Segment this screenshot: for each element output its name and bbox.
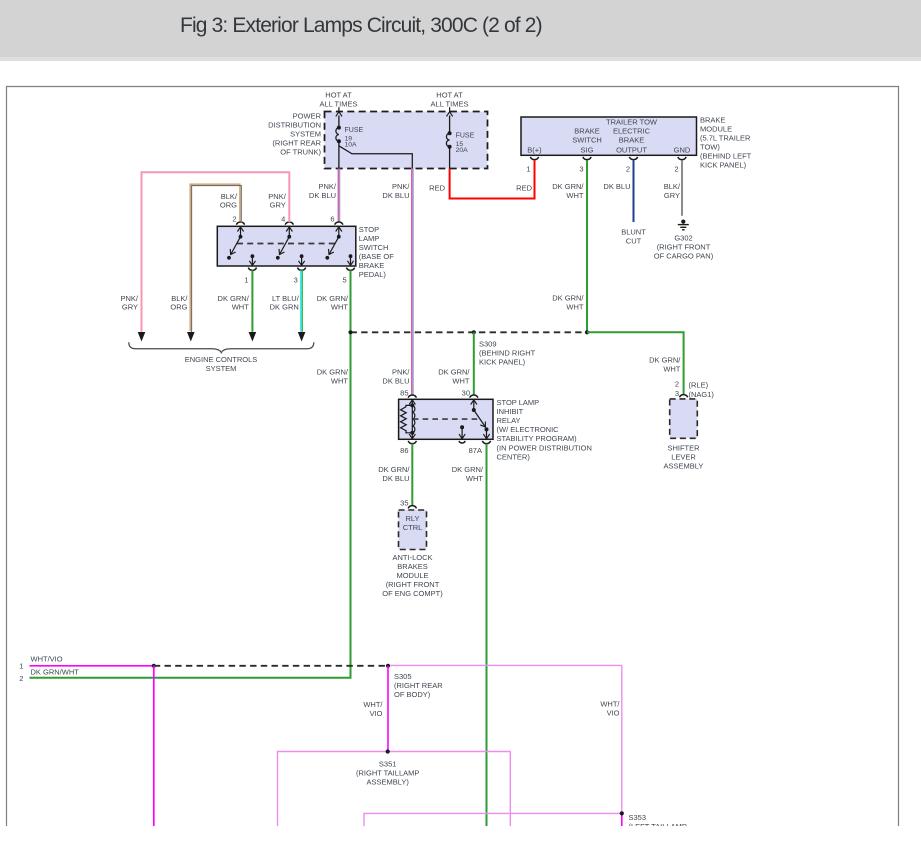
svg-text:DK BLU: DK BLU: [603, 182, 630, 191]
svg-text:86: 86: [400, 446, 408, 455]
svg-text:KICK PANEL): KICK PANEL): [479, 358, 526, 367]
svg-text:KICK PANEL): KICK PANEL): [700, 161, 747, 170]
svg-text:BRAKE: BRAKE: [619, 136, 644, 145]
wire DK GRN/WHT pin1 down to engine controls: [251, 270, 253, 332]
svg-text:2: 2: [675, 379, 679, 388]
svg-text:ORG: ORG: [170, 303, 187, 312]
wire DK GRN/WHT S309 to shifter lever: [587, 332, 684, 395]
svg-text:S353: S353: [629, 813, 647, 822]
wire DK GRN/WHT relay 87A down to bottom: [486, 444, 488, 826]
svg-text:HOT AT: HOT AT: [325, 91, 352, 100]
svg-text:LT BLU/: LT BLU/: [272, 294, 300, 303]
brake module (trailer tow) box: [521, 117, 697, 155]
svg-text:BRAKES: BRAKES: [397, 562, 427, 571]
svg-text:(BEHIND LEFT: (BEHIND LEFT: [700, 152, 752, 161]
wire DK GRN/WHT S309 to relay pin 30: [473, 332, 475, 395]
svg-text:BLK/: BLK/: [171, 294, 188, 303]
svg-text:WHT/VIO: WHT/VIO: [31, 655, 63, 664]
svg-text:RED: RED: [429, 184, 445, 193]
svg-text:CENTER): CENTER): [497, 452, 531, 461]
svg-text:OF TRUNK): OF TRUNK): [280, 148, 321, 157]
svg-text:BLUNT: BLUNT: [621, 227, 646, 236]
svg-text:VIO: VIO: [607, 709, 620, 718]
wire WHT/VIO S305 to right: [390, 664, 622, 666]
svg-text:S309: S309: [479, 339, 497, 348]
svg-text:(RIGHT FRONT: (RIGHT FRONT: [386, 580, 440, 589]
svg-text:RED: RED: [516, 184, 532, 193]
wire BLK/GRY gnd to G302: [681, 160, 683, 215]
svg-text:GND: GND: [674, 146, 691, 155]
wire PNK/GRY pin4 up-left-down to engine controls: [142, 172, 290, 331]
shifter lever assembly box (dashed): [670, 399, 698, 438]
svg-text:DK GRN/: DK GRN/: [317, 294, 349, 303]
svg-text:(BEHIND RIGHT: (BEHIND RIGHT: [479, 348, 536, 357]
relay pin connectors: [408, 395, 416, 398]
svg-text:WHT/: WHT/: [600, 700, 620, 709]
svg-text:1: 1: [526, 165, 530, 174]
wire WHT/VIO from left edge: [30, 665, 154, 667]
svg-text:30: 30: [462, 388, 470, 397]
svg-text:(IN POWER DISTRIBUTION: (IN POWER DISTRIBUTION: [497, 443, 592, 452]
svg-text:PEDAL): PEDAL): [359, 270, 387, 279]
svg-text:FUSE: FUSE: [456, 132, 475, 139]
svg-text:LEVER: LEVER: [671, 452, 696, 461]
svg-text:ANTI-LOCK: ANTI-LOCK: [392, 553, 432, 562]
svg-text:2: 2: [674, 165, 678, 174]
junction S309: [472, 330, 476, 334]
wire PNK/DK BLU fuse19 to stop lamp switch pin 6: [338, 169, 339, 223]
wire DK GRN/DK BLU relay 86 to ABS module: [411, 444, 413, 506]
wire: fuse 15 output inside box: [449, 147, 451, 169]
power distribution center box (dashed, fuses): [325, 112, 488, 169]
stop lamp switch element at pin 289.3: [288, 226, 290, 236]
svg-text:WHT: WHT: [331, 376, 348, 385]
wire DK GRN/WHT pin5 down + left to connector edge: [30, 270, 351, 678]
svg-text:2: 2: [232, 214, 236, 223]
wire DK GRN/WHT brake switch sig down to S309 bus: [586, 160, 588, 332]
svg-text:HOT AT: HOT AT: [436, 91, 463, 100]
svg-text:POWER: POWER: [293, 112, 322, 121]
stop lamp switch box: [217, 226, 355, 266]
svg-text:SYSTEM: SYSTEM: [206, 364, 237, 373]
svg-text:3: 3: [579, 165, 583, 174]
svg-text:BRAKE: BRAKE: [574, 127, 599, 136]
svg-text:(W/ ELECTRONIC: (W/ ELECTRONIC: [497, 425, 560, 434]
svg-text:DK GRN/: DK GRN/: [452, 465, 484, 474]
ground G302 symbol: [681, 220, 685, 224]
wire stub hot-at to fuse 19: [338, 107, 340, 111]
svg-text:WHT: WHT: [331, 303, 348, 312]
svg-text:LAMP: LAMP: [359, 234, 379, 243]
wire DK BLU brake output to blunt cut: [633, 160, 635, 222]
svg-text:MODULE: MODULE: [396, 571, 428, 580]
svg-text:WHT: WHT: [566, 303, 583, 312]
svg-text:OF CARGO PAN): OF CARGO PAN): [654, 251, 714, 260]
svg-text:CUT: CUT: [626, 236, 642, 245]
junction at brake sig wire: [585, 330, 589, 334]
wire WHT/VIO S353 branch left: [364, 813, 622, 826]
stop lamp inhibit relay box: [399, 399, 493, 439]
wire WHT/VIO S351 branches: [278, 752, 511, 827]
svg-text:(5.7L TRAILER: (5.7L TRAILER: [700, 133, 751, 142]
junction WHT/VIO: [152, 664, 156, 668]
wire RED fuse15 to B(+): [450, 160, 535, 198]
junction S305: [386, 664, 390, 668]
svg-text:G302: G302: [674, 233, 692, 242]
wire stub hot-at to fuse 15: [449, 107, 451, 111]
svg-text:2: 2: [626, 165, 630, 174]
wire: fuse 19 output inside box: [338, 141, 340, 168]
svg-text:VIO: VIO: [370, 709, 383, 718]
svg-text:35: 35: [400, 498, 408, 507]
S305 dashed link: [154, 665, 388, 667]
wire LT BLU/DK GRN pin3 down to engine controls: [301, 270, 302, 332]
stop lamp switch internal dashed link: [237, 243, 335, 245]
svg-text:(NAG1): (NAG1): [689, 390, 715, 399]
svg-text:SYSTEM: SYSTEM: [290, 130, 321, 139]
wire PNK/DK BLU fuse19 branch to relay pin 85: [412, 169, 413, 396]
svg-text:(RIGHT REAR: (RIGHT REAR: [272, 139, 321, 148]
svg-text:3: 3: [294, 275, 298, 284]
relay pin 87 (unused): [460, 425, 464, 429]
svg-text:BRAKE: BRAKE: [700, 115, 725, 124]
svg-text:(LEFT TAILLAMP: (LEFT TAILLAMP: [629, 822, 687, 831]
svg-text:PNK/: PNK/: [392, 367, 410, 376]
svg-text:DK GRN/: DK GRN/: [649, 355, 681, 364]
svg-text:(BASE OF: (BASE OF: [359, 252, 394, 261]
svg-text:WHT: WHT: [466, 474, 483, 483]
svg-text:ASSEMBLY: ASSEMBLY: [664, 461, 704, 470]
svg-text:GRY: GRY: [270, 201, 286, 210]
svg-text:(RIGHT REAR: (RIGHT REAR: [394, 681, 443, 690]
anti-lock brakes module box (dashed) RLY CTRL: [399, 510, 427, 550]
svg-text:TOW): TOW): [700, 142, 720, 151]
svg-text:OF BODY): OF BODY): [394, 690, 431, 699]
svg-text:SWITCH: SWITCH: [359, 243, 389, 252]
svg-text:CTRL: CTRL: [403, 523, 423, 532]
svg-text:DK BLU: DK BLU: [382, 474, 409, 483]
svg-text:GRY: GRY: [122, 303, 138, 312]
svg-text:STOP LAMP: STOP LAMP: [497, 398, 540, 407]
svg-text:85: 85: [400, 388, 408, 397]
junction S353: [620, 811, 624, 815]
svg-text:1: 1: [19, 661, 23, 670]
svg-text:PNK/: PNK/: [120, 294, 138, 303]
svg-text:DK GRN/: DK GRN/: [218, 294, 250, 303]
svg-text:DK BLU: DK BLU: [309, 191, 336, 200]
svg-text:6: 6: [330, 214, 334, 223]
svg-text:BLK/: BLK/: [664, 182, 681, 191]
svg-text:RLY: RLY: [405, 514, 419, 523]
svg-text:DK BLU: DK BLU: [382, 191, 409, 200]
svg-text:FUSE: FUSE: [345, 127, 364, 134]
junction S351: [386, 749, 390, 753]
svg-text:ELECTRIC: ELECTRIC: [613, 127, 651, 136]
svg-text:DK GRN: DK GRN: [270, 303, 299, 312]
svg-text:S351: S351: [379, 759, 397, 768]
svg-text:MODULE: MODULE: [700, 124, 732, 133]
brake module pin connectors: [530, 157, 538, 160]
engine controls system arrows: [138, 332, 146, 342]
svg-text:DK GRN/: DK GRN/: [317, 367, 349, 376]
svg-text:RELAY: RELAY: [497, 416, 521, 425]
svg-text:87A: 87A: [469, 446, 482, 455]
svg-text:STABILITY PROGRAM): STABILITY PROGRAM): [497, 434, 578, 443]
svg-text:B(+): B(+): [527, 146, 542, 155]
svg-text:ASSEMBLY): ASSEMBLY): [367, 777, 410, 786]
svg-text:ORG: ORG: [220, 201, 237, 210]
svg-text:WHT/: WHT/: [363, 700, 383, 709]
relay coil (pin 85-86): [411, 399, 413, 405]
engine controls system brace: [129, 342, 314, 352]
svg-text:PNK/: PNK/: [318, 182, 336, 191]
svg-text:10A: 10A: [345, 141, 358, 148]
svg-text:TRAILER TOW: TRAILER TOW: [606, 118, 658, 127]
svg-text:INHIBIT: INHIBIT: [497, 407, 524, 416]
svg-text:DISTRIBUTION: DISTRIBUTION: [268, 121, 321, 130]
svg-text:1: 1: [244, 275, 248, 284]
svg-text:DK GRN/: DK GRN/: [438, 367, 470, 376]
svg-text:20A: 20A: [456, 147, 469, 154]
svg-text:SWITCH: SWITCH: [572, 136, 602, 145]
svg-text:DK GRN/WHT: DK GRN/WHT: [31, 667, 80, 676]
relay internal dashed link: [413, 418, 479, 420]
wire WHT/VIO S353 stub down: [621, 813, 623, 826]
svg-text:WHT: WHT: [663, 364, 680, 373]
wire WHT/VIO S305 to S351: [387, 666, 389, 752]
svg-text:OF ENG COMPT): OF ENG COMPT): [382, 589, 443, 598]
svg-text:DK GRN/: DK GRN/: [552, 294, 584, 303]
svg-text:ENGINE CONTROLS: ENGINE CONTROLS: [185, 355, 258, 364]
svg-text:DK GRN/: DK GRN/: [378, 465, 410, 474]
svg-text:OUTPUT: OUTPUT: [616, 146, 647, 155]
relay switch (pin 30-87A): [473, 399, 475, 410]
svg-text:DK BLU: DK BLU: [382, 376, 409, 385]
svg-text:S305: S305: [394, 672, 412, 681]
svg-text:BRAKE: BRAKE: [359, 261, 384, 270]
stop lamp switch pin connectors: [236, 222, 244, 225]
wire WHT/VIO down to bottom edge: [153, 666, 155, 826]
S309 splice dashed bus: [351, 331, 588, 333]
stop lamp switch element at pin 338.8: [338, 226, 340, 236]
svg-text:(RLE): (RLE): [689, 380, 709, 389]
svg-text:2: 2: [19, 674, 23, 683]
svg-text:(RIGHT TAILLAMP: (RIGHT TAILLAMP: [356, 768, 419, 777]
junction at pin5 wire: [348, 330, 352, 334]
svg-text:WHT: WHT: [566, 191, 583, 200]
svg-text:PNK/: PNK/: [392, 182, 410, 191]
svg-text:STOP: STOP: [359, 225, 379, 234]
ABS connector: [408, 506, 416, 509]
svg-text:5: 5: [343, 275, 347, 284]
shifter connector: [679, 395, 687, 398]
svg-text:WHT: WHT: [232, 303, 249, 312]
wire WHT/VIO down to S353: [621, 665, 623, 813]
wire BLK/ORG pin2 up-left-down to engine controls: [190, 184, 241, 332]
svg-text:SHIFTER: SHIFTER: [667, 443, 700, 452]
stop lamp switch element at pin 240.5: [240, 226, 242, 236]
svg-text:3: 3: [675, 389, 679, 398]
svg-text:(RIGHT FRONT: (RIGHT FRONT: [657, 242, 711, 251]
svg-text:WHT: WHT: [452, 376, 469, 385]
svg-text:SIG: SIG: [581, 146, 594, 155]
svg-text:GRY: GRY: [664, 191, 680, 200]
svg-text:4: 4: [281, 214, 285, 223]
svg-text:DK GRN/: DK GRN/: [552, 182, 584, 191]
